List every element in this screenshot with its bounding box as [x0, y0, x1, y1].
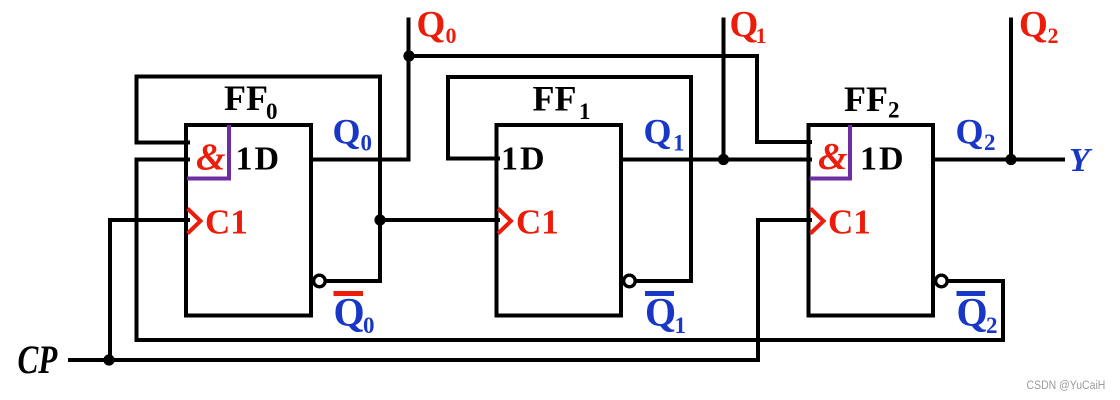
inverter bubble FF2	[936, 275, 948, 287]
svg-text:C1: C1	[828, 203, 871, 242]
wire Q2bar down riser x=1003	[1001, 281, 1005, 340]
flip-flop FF0 box	[186, 125, 311, 316]
AND gate purple outline FF0	[187, 125, 229, 179]
label Q2bar blue with blue overbar	[957, 291, 986, 296]
svg-text:1D: 1D	[501, 141, 547, 178]
wire FF0 AND input-2 y=159.5	[137, 158, 189, 162]
svg-text:1D: 1D	[860, 141, 906, 178]
wire Q1 riser vertical x=723.5	[722, 20, 726, 160]
svg-text:Q: Q	[730, 5, 759, 46]
svg-text:FF: FF	[533, 79, 577, 119]
wire FF1 Q1 output y=159.5 to FF2 AND input-2	[621, 158, 810, 162]
svg-text:Q: Q	[644, 112, 672, 152]
clock chevron FF2	[811, 209, 824, 234]
wire Q2bar long feedback line y=340	[137, 338, 1004, 342]
clock chevron FF0	[188, 209, 201, 234]
clock chevron FF1	[498, 209, 511, 234]
svg-text:Q: Q	[957, 290, 988, 335]
AND gate purple outline FF2	[810, 125, 851, 179]
svg-text:&: &	[196, 137, 226, 179]
svg-text:Q: Q	[645, 290, 676, 335]
wire FF2 CP riser x=758	[756, 220, 760, 360]
svg-text:1: 1	[579, 99, 591, 124]
wire FF2 Q2 output to Y y=159.5	[933, 158, 1063, 162]
flip-flop FF2 box	[809, 125, 934, 316]
wire Q1bar riser x=691 (FF1 feedback right side)	[689, 77, 693, 281]
wire FF2 C1 input y=220	[758, 218, 810, 222]
label Q1bar blue with blue overbar	[645, 291, 674, 296]
wire FF1 feedback loop top y=77	[448, 75, 691, 79]
svg-text:C1: C1	[516, 203, 559, 242]
svg-text:&: &	[818, 136, 848, 178]
wire L riser x=757 down to FF2 AND input	[755, 56, 759, 142]
node junction dot Q2 output	[1005, 154, 1016, 165]
wire Q2bar feedback riser x=136.5	[135, 160, 139, 341]
svg-text:Q: Q	[417, 5, 446, 46]
wire into FF2 AND input-1 y=142	[757, 140, 810, 144]
svg-text:2: 2	[986, 313, 998, 338]
wire FF1 1D input y=158.5	[448, 157, 498, 161]
svg-text:0: 0	[361, 131, 373, 156]
wire FF0 feedback left vertical x=136.5	[135, 77, 139, 143]
node junction dot CP	[103, 354, 114, 365]
svg-text:2: 2	[984, 130, 996, 155]
svg-text:Q: Q	[956, 112, 984, 152]
wire Q0 top branch y=56	[409, 54, 757, 58]
svg-text:Q: Q	[1019, 5, 1048, 46]
svg-text:1: 1	[756, 23, 767, 48]
node junction dot Q0bar to C1	[374, 214, 385, 225]
svg-text:1D: 1D	[236, 141, 282, 178]
svg-text:2: 2	[888, 98, 900, 123]
svg-text:1: 1	[675, 313, 687, 338]
node junction dot Q1 output	[718, 154, 729, 165]
svg-text:FF: FF	[844, 79, 888, 119]
wire FF0 CP riser x=110	[108, 220, 112, 360]
svg-text:1: 1	[673, 131, 685, 156]
svg-text:0: 0	[266, 99, 278, 124]
wire FF1 feedback left vertical x=448	[446, 77, 450, 159]
wire FF0 Q0 output y=159.5	[311, 158, 409, 162]
flip-flop FF1 box	[497, 125, 622, 316]
wire FF2 Q2bar from bubble y=281	[948, 279, 1003, 283]
svg-text:0: 0	[446, 23, 457, 48]
wire FF0 Q0bar from bubble y=281	[326, 279, 380, 283]
svg-text:Y: Y	[1069, 142, 1093, 179]
svg-text:Q: Q	[333, 112, 361, 152]
svg-text:2: 2	[1048, 23, 1059, 48]
wire Q0bar riser x=380 (FF0 feedback right side)	[378, 77, 382, 282]
svg-text:CP: CP	[18, 337, 59, 382]
node junction dot Q0 top	[403, 50, 414, 61]
svg-text:FF: FF	[224, 78, 268, 118]
wire Q0 riser vertical x=408.5	[407, 20, 411, 160]
wire CP line y=360	[70, 358, 758, 362]
svg-text:C1: C1	[205, 203, 248, 242]
inverter bubble FF1	[624, 275, 636, 287]
svg-text:Q: Q	[334, 290, 365, 335]
wire FF0 AND input-1 y=142.5	[137, 141, 189, 145]
wire FF1 C1 input from Q0bar node y=220	[380, 218, 498, 222]
label Q0bar blue with red overbar	[334, 291, 364, 296]
wire FF1 Q1bar from bubble y=281	[636, 279, 691, 283]
inverter bubble FF0	[314, 275, 326, 287]
wire Q2 riser vertical x=1011	[1009, 20, 1013, 160]
wire FF0 feedback loop top y=76.5	[137, 75, 381, 79]
wire FF0 C1 input y=220	[110, 218, 188, 222]
svg-text:CSDN @YuCaiH: CSDN @YuCaiH	[1027, 379, 1106, 392]
svg-text:0: 0	[363, 313, 375, 338]
